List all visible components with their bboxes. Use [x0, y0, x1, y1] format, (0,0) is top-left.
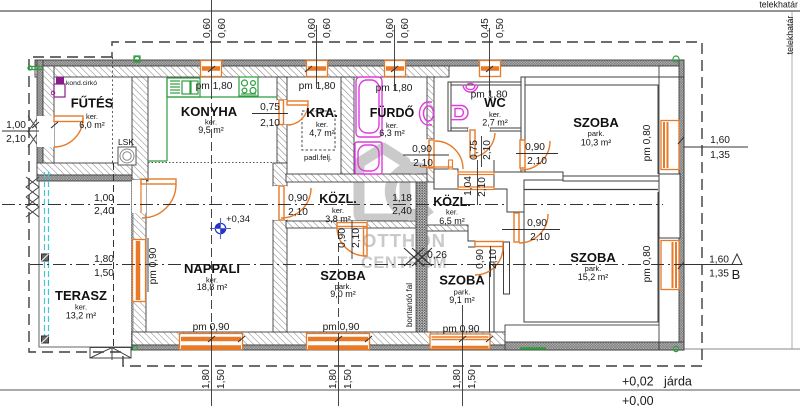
svg-text:1,35: 1,35 [710, 150, 730, 161]
wall kamra-furdo [341, 77, 354, 182]
room futes [71, 96, 114, 131]
window bottom szoba91 [430, 334, 490, 349]
svg-text:pm 1,80: pm 1,80 [196, 81, 233, 92]
svg-text:0,75: 0,75 [260, 102, 280, 113]
tick marks [32, 66, 684, 342]
dim line top w4 [489, 28, 491, 96]
svg-text:pm 1,80: pm 1,80 [299, 81, 336, 92]
washbasin furdo [420, 102, 434, 125]
svg-text:+0,34: +0,34 [226, 214, 250, 225]
window top konyha [201, 61, 222, 77]
door futes entry [37, 116, 83, 147]
survey marker +0,34 [210, 218, 231, 239]
svg-text:0,75: 0,75 [469, 140, 480, 160]
dim line bottom w2 [338, 230, 340, 333]
room terasz [55, 288, 107, 321]
gas entry green top-left [28, 66, 43, 70]
wc toilet [451, 106, 468, 120]
wall wc-szoba upper [521, 77, 525, 140]
terrace post upper [42, 254, 49, 261]
nappali left wall gray band [131, 181, 134, 347]
thin partition walls [434, 77, 684, 332]
dim line szoba152 door [502, 229, 560, 231]
svg-text:0,50: 0,50 [495, 18, 506, 38]
bottom exterior wall hatch [132, 332, 505, 345]
svg-text:pm 0,90: pm 0,90 [323, 322, 360, 333]
svg-text:1,50: 1,50 [343, 369, 354, 389]
wall szoba91-szoba152 [504, 242, 510, 294]
dim line konyha door [252, 113, 288, 115]
svg-text:pm 0,80: pm 0,80 [642, 245, 653, 282]
window bottom szoba90 [307, 334, 370, 350]
svg-text:0,45: 0,45 [480, 18, 491, 38]
dim line bottom w3 [462, 305, 464, 406]
svg-text:2,40: 2,40 [94, 206, 114, 217]
svg-text:2,10: 2,10 [260, 118, 280, 129]
svg-text:SZOBA: SZOBA [320, 268, 366, 283]
svg-text:0,60: 0,60 [307, 18, 318, 38]
top exterior wall: gray insulation band [35, 60, 684, 66]
bontando fal strip [416, 182, 427, 332]
door szoba152 [514, 213, 548, 243]
sidewalk line upper [660, 348, 800, 350]
svg-text:1,50: 1,50 [94, 268, 114, 279]
terrace slab outline [39, 180, 133, 347]
svg-text:0,90: 0,90 [337, 228, 348, 248]
futes bottom wall hatch [37, 163, 148, 175]
site texts [622, 0, 798, 406]
room szoba91 [439, 273, 485, 306]
room furdo [370, 105, 415, 138]
svg-text:padl.felj.: padl.felj. [304, 153, 332, 162]
door furdo [421, 139, 463, 169]
door konyha-kamra [277, 100, 308, 125]
svg-text:1,50: 1,50 [216, 369, 227, 389]
padl.felj dashed hatch rect [302, 111, 335, 150]
room kozl38 [319, 191, 357, 224]
corridor top wall [286, 174, 427, 182]
section line B horizontal [30, 264, 742, 266]
svg-text:1,00: 1,00 [6, 120, 26, 131]
svg-text:FŰTÉS: FŰTÉS [71, 96, 114, 111]
wall furdo right upper [427, 77, 434, 139]
svg-text:18,8 m²: 18,8 m² [197, 282, 228, 292]
svg-text:FÜRDŐ: FÜRDŐ [370, 105, 415, 120]
dim bar szoba91 door vertical [490, 246, 492, 277]
watermark logo [359, 148, 447, 272]
door nappali-kozl [273, 186, 311, 220]
svg-text:WC: WC [484, 95, 506, 110]
door szoba91 [475, 242, 503, 276]
eave dotted line futes [112, 57, 114, 163]
svg-text:9,0 m²: 9,0 m² [330, 289, 356, 299]
svg-text:OTTHON: OTTHON [362, 230, 446, 251]
svg-text:6,5 m²: 6,5 m² [439, 216, 465, 226]
svg-text:pm 0,80: pm 0,80 [642, 124, 653, 161]
window right szoba103 [661, 121, 679, 170]
svg-text:+0,00: +0,00 [622, 394, 654, 406]
svg-text:0,90: 0,90 [412, 144, 432, 155]
svg-text:pm 0,90: pm 0,90 [148, 247, 159, 284]
B section marker [732, 254, 742, 282]
bottom-right wall white body [505, 325, 684, 345]
door kozl-szoba90 [337, 221, 367, 256]
bottom-right wall gray band [505, 342, 684, 350]
wc bottom wall left part [451, 128, 468, 131]
entry arrow futes door [28, 116, 39, 147]
svg-text:pm 1,80: pm 1,80 [376, 83, 413, 94]
svg-text:NAPPALI: NAPPALI [184, 261, 240, 276]
openings [37, 61, 679, 350]
svg-text:1,18: 1,18 [392, 193, 412, 204]
svg-text:TERASZ: TERASZ [55, 288, 107, 303]
svg-text:2,10: 2,10 [482, 140, 493, 160]
kitchen sink unit [167, 78, 200, 97]
szoba91 top wall hatch [423, 225, 468, 231]
svg-text:10,3 m²: 10,3 m² [581, 138, 612, 148]
szoba103 bottom wall right part [563, 176, 659, 181]
svg-text:2,10: 2,10 [351, 228, 362, 248]
terrace rainline cyan dashed [45, 172, 49, 342]
svg-text:1,80: 1,80 [201, 369, 212, 389]
dim line right window1 [684, 146, 748, 148]
dim line top w3 [394, 25, 396, 90]
room nappali [184, 261, 240, 292]
svg-text:B: B [732, 267, 741, 282]
svg-text:2,10: 2,10 [488, 249, 499, 269]
svg-text:0,90: 0,90 [525, 142, 545, 153]
svg-text:9,5 m²: 9,5 m² [198, 125, 224, 135]
szoba91 top wall step [468, 231, 475, 247]
svg-text:1,35: 1,35 [709, 268, 729, 279]
svg-text:1,04: 1,04 [463, 176, 474, 196]
kitchen counter edge lines [148, 78, 277, 161]
svg-text:bontandó fal: bontandó fal [405, 283, 414, 327]
wall kozl65 top polygon [494, 172, 563, 212]
dim line szoba103 door [516, 153, 558, 155]
svg-text:2,40: 2,40 [392, 206, 412, 217]
svg-text:1,00: 1,00 [94, 193, 114, 204]
kitchen stove [239, 77, 258, 96]
window left nappali-terrace [133, 240, 146, 302]
svg-text:kond.cirkó: kond.cirkó [66, 80, 97, 87]
svg-text:+0,02 járda: +0,02 járda [622, 375, 692, 389]
wc corner basin [463, 83, 478, 92]
door terrace-nappali [132, 179, 176, 218]
svg-text:2,10: 2,10 [527, 156, 547, 167]
svg-text:1,60: 1,60 [709, 254, 729, 265]
wall konyha-kamra lower [277, 125, 287, 164]
room szoba152 [570, 250, 616, 282]
wc left wall [448, 82, 451, 131]
jamb line kozl65 opening [493, 160, 495, 172]
bathtub [356, 77, 382, 137]
wall nappali-szoba lower [273, 220, 287, 332]
window right szoba152 [661, 241, 679, 290]
wc top wall [448, 82, 524, 85]
svg-text:2,10: 2,10 [477, 177, 488, 197]
svg-text:2,10: 2,10 [413, 158, 433, 169]
door wc [468, 128, 495, 157]
wc bottom wall right part [490, 128, 524, 131]
room kamra [304, 105, 338, 162]
szoba103 top interior face line [525, 76, 684, 78]
corridor bottom wall [286, 221, 416, 228]
room szoba103 [573, 115, 619, 148]
right exterior wall gray band [679, 60, 684, 350]
green sill line bottom [520, 347, 546, 349]
svg-text:0,60: 0,60 [322, 18, 333, 38]
svg-text:3,8 m²: 3,8 m² [325, 214, 351, 224]
svg-text:KÖZL.: KÖZL. [319, 191, 357, 206]
window top furdo [385, 61, 406, 77]
svg-text:telekhatár: telekhatár [759, 0, 798, 10]
dim line right window2 [684, 264, 742, 266]
svg-text:2,10: 2,10 [6, 134, 26, 145]
svg-text:0,60: 0,60 [217, 18, 228, 38]
window bottom nappali [180, 334, 243, 350]
svg-text:15,2 m²: 15,2 m² [578, 272, 609, 282]
konyha-nappali open boundary dotted [148, 162, 272, 164]
dim line bottom w1 [211, 170, 213, 333]
room szoba90 [320, 268, 366, 299]
svg-text:LSK: LSK [118, 137, 134, 147]
entry steps bottom [90, 348, 131, 361]
wall furdo right lower [427, 167, 434, 182]
szoba152 top wall [524, 189, 658, 191]
window top kamra [307, 61, 328, 77]
svg-text:0,60: 0,60 [202, 18, 213, 38]
svg-text:pm 0,90: pm 0,90 [193, 322, 230, 333]
svg-text:0,60: 0,60 [400, 18, 411, 38]
svg-text:0,90: 0,90 [288, 193, 308, 204]
dim line furdo door [403, 154, 449, 156]
dim line left door [2, 130, 39, 132]
bottom exterior wall gray band [132, 345, 684, 350]
svg-text:pm 0,90: pm 0,90 [443, 324, 480, 335]
wall nappali-kozl upper [273, 163, 287, 186]
demolition cross marks [404, 248, 432, 266]
szoba152 interior outline [524, 192, 658, 322]
szoba103 interior offset outline [525, 85, 658, 174]
dim bar opening104 vertical [477, 160, 479, 205]
green marker bottom right [673, 346, 678, 351]
right wall inner stub between windows [659, 174, 680, 238]
cased opening kozl65 [458, 172, 494, 190]
section line A horizontal [2, 204, 507, 206]
green marker top right [673, 56, 679, 62]
dim bar kozl door vertical [351, 220, 353, 259]
svg-text:0,60: 0,60 [385, 18, 396, 38]
door szoba103 [520, 140, 550, 170]
svg-text:2,10: 2,10 [530, 232, 550, 243]
svg-text:6,3 m²: 6,3 m² [379, 128, 405, 138]
roof overhang dashed boundary [29, 42, 702, 366]
fixtures [26, 56, 679, 360]
chimney marker top [134, 56, 140, 62]
svg-text:1,80: 1,80 [94, 254, 114, 265]
room wc [482, 95, 508, 128]
svg-text:2,10: 2,10 [288, 207, 308, 218]
svg-text:13,2 m²: 13,2 m² [66, 311, 97, 321]
entry arrow terrace [26, 177, 39, 217]
sidewalk line lower [0, 389, 800, 391]
terrace post lower [42, 336, 49, 343]
svg-text:4,7 m²: 4,7 m² [309, 128, 335, 138]
svg-text:6,0 m²: 6,0 m² [79, 120, 105, 130]
room konyha [181, 104, 238, 135]
svg-text:SZOBA: SZOBA [439, 273, 485, 288]
svg-text:2,7 m²: 2,7 m² [482, 118, 508, 128]
kond.cirko unit [51, 77, 65, 97]
svg-text:1,50: 1,50 [467, 369, 478, 389]
svg-text:0,90: 0,90 [475, 249, 486, 269]
dim line top w1 [211, 0, 213, 90]
right exterior wall white body [659, 66, 684, 350]
svg-text:0,26: 0,26 [427, 250, 447, 261]
svg-text:telekhatár: telekhatár [785, 16, 795, 55]
room kozl65 [433, 194, 471, 226]
svg-text:KRA.: KRA. [306, 105, 338, 120]
top exterior wall: masonry hatch [35, 66, 449, 77]
svg-text:1,60: 1,60 [710, 135, 730, 146]
wall futes-konyha [132, 77, 148, 180]
left exterior wall hatch [43, 66, 54, 180]
wall wc-szoba stub [521, 168, 525, 174]
nappali left wall hatch [132, 174, 146, 332]
futes bottom wall gray band [37, 175, 148, 181]
corridor front wc bottom wall block [434, 169, 458, 189]
dim line top w2 [316, 25, 318, 88]
bottom-right corner gray band [659, 342, 684, 350]
green marker bottom left corner [133, 346, 137, 350]
svg-text:SZOBA: SZOBA [573, 115, 619, 130]
svg-text:9,1 m²: 9,1 m² [449, 295, 475, 305]
dim bar wc door vertical [481, 136, 483, 167]
shower tray [355, 142, 382, 174]
dim bar terrace window vertical [147, 238, 149, 292]
terrace eave line [39, 169, 131, 171]
svg-text:1,80: 1,80 [328, 369, 339, 389]
walls [35, 60, 684, 350]
wall konyha-kamra upper [277, 77, 287, 100]
svg-text:0,90: 0,90 [527, 218, 547, 229]
svg-text:SZOBA: SZOBA [570, 250, 616, 265]
property line top [0, 10, 800, 12]
left exterior wall gray band [37, 60, 43, 180]
window top wc [480, 61, 501, 77]
property line right [791, 11, 793, 349]
svg-text:1,80: 1,80 [452, 369, 463, 389]
LSK floor drain [118, 147, 136, 165]
